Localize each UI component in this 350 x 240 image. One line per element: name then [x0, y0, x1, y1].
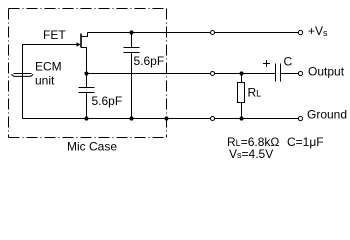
ECM element bottom plate — [12, 74, 34, 76]
svg-text:C: C — [284, 55, 293, 69]
capacitor C1 5.6pF plates — [124, 48, 140, 53]
terminal circle +Vs — [298, 30, 302, 34]
wire output rail — [87, 73, 299, 75]
svg-text:ECM: ECM — [35, 60, 62, 74]
junction dot top cap1 — [129, 30, 133, 34]
junction dot ground cap2 — [84, 116, 88, 120]
capacitor C2 5.6pF plates — [79, 88, 95, 93]
svg-text:5.6pF: 5.6pF — [92, 94, 123, 108]
wire FET source lead down to output rail — [81, 48, 87, 74]
plus sign for capacitor C — [263, 60, 270, 67]
svg-text:Output: Output — [308, 65, 345, 79]
wire RL leads — [241, 74, 243, 119]
capacitor C plates — [276, 64, 281, 82]
connector circle +Vs — [211, 31, 215, 35]
svg-text:RL: RL — [248, 86, 262, 100]
wire +Vs rail — [88, 32, 299, 34]
junction dot RL top — [239, 71, 243, 75]
wire cap2 lead to ground — [86, 74, 88, 119]
FET gate arrowhead — [77, 42, 81, 47]
junction dot FET source / output — [84, 71, 88, 75]
connector circle ground — [211, 117, 215, 121]
junction dot ground cap1 — [129, 116, 133, 120]
transistor Q1 FET channel bar — [80, 34, 82, 48]
capacitor C1 5.6pF leads — [131, 33, 133, 119]
mic case dash-dot border — [9, 9, 167, 138]
resistor RL body — [238, 83, 245, 103]
wire FET drain lead — [81, 33, 88, 37]
junction dot ground RL — [239, 116, 243, 120]
svg-text:5.6pF: 5.6pF — [134, 54, 165, 68]
svg-text:C=1μF: C=1μF — [287, 135, 324, 149]
svg-text:Vs=4.5V: Vs=4.5V — [229, 147, 273, 161]
svg-text:unit: unit — [35, 74, 55, 88]
junction dot ground case — [164, 116, 168, 120]
ECM element top plate — [14, 73, 32, 75]
wire FET gate from ECM — [23, 45, 78, 74]
svg-text:FET: FET — [43, 28, 66, 42]
connector circle output — [211, 72, 215, 76]
terminal circle output — [298, 71, 302, 75]
svg-text:Ground: Ground — [307, 108, 347, 122]
ECM element lead — [22, 45, 24, 119]
wire ground rail — [23, 118, 299, 120]
terminal circle ground — [298, 116, 302, 120]
svg-text:Mic Case: Mic Case — [67, 140, 117, 154]
